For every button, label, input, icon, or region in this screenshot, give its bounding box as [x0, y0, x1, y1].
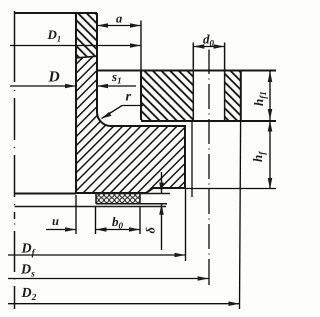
- bolt hole axis centerline: [208, 50, 210, 286]
- pipe wall (hatched section above weld): [76, 13, 97, 58]
- flange inner edge: [140, 71, 142, 121]
- pipe wall right edge: [96, 13, 98, 57]
- leader r: [102, 106, 144, 119]
- dimension a: [97, 21, 141, 71]
- svg-text:δ: δ: [144, 227, 158, 234]
- dimension delta: [161, 172, 163, 250]
- D2 extension line: [240, 120, 241, 309]
- dimension D: [10, 85, 76, 87]
- dimension hf right: [185, 121, 276, 190]
- dimension d0: [193, 46, 224, 48]
- dimension b0: [96, 229, 141, 231]
- dimension u: [46, 229, 76, 231]
- dimension D_s: [8, 278, 209, 280]
- dimension D1: [10, 45, 141, 47]
- flange top face line: [97, 70, 276, 72]
- dimension hf1 right: [269, 71, 271, 120]
- flange bottom line: [141, 120, 276, 122]
- loose flange ring right part: [225, 71, 241, 120]
- extension lines for u and b0: [76, 195, 140, 234]
- bolt hole right edge: [224, 43, 226, 121]
- pipe wall left edge: [75, 13, 77, 58]
- pipe axis centerline: [14, 11, 16, 309]
- weld joint line: [76, 56, 97, 58]
- loose flange ring left part: [141, 71, 193, 120]
- dimension s1: [97, 85, 136, 87]
- vertical edge right of collar: [191, 121, 193, 197]
- dimension D_f: [8, 254, 186, 256]
- svg-text:D: D: [48, 69, 60, 86]
- collar (welded flared ring, hatched section below weld): [76, 56, 185, 193]
- bolt hole left edge: [192, 43, 194, 121]
- dimension D_2: [8, 303, 240, 305]
- D_f extension line: [185, 188, 187, 261]
- gasket: [96, 194, 170, 204]
- pipe top edge line: [15, 12, 98, 14]
- cover plate top line: [15, 206, 167, 208]
- svg-text:u: u: [52, 214, 59, 228]
- flange outer edge: [240, 71, 242, 121]
- svg-text:r: r: [126, 90, 132, 105]
- line collar bottom to axis: [15, 193, 77, 195]
- svg-text:a: a: [116, 12, 122, 26]
